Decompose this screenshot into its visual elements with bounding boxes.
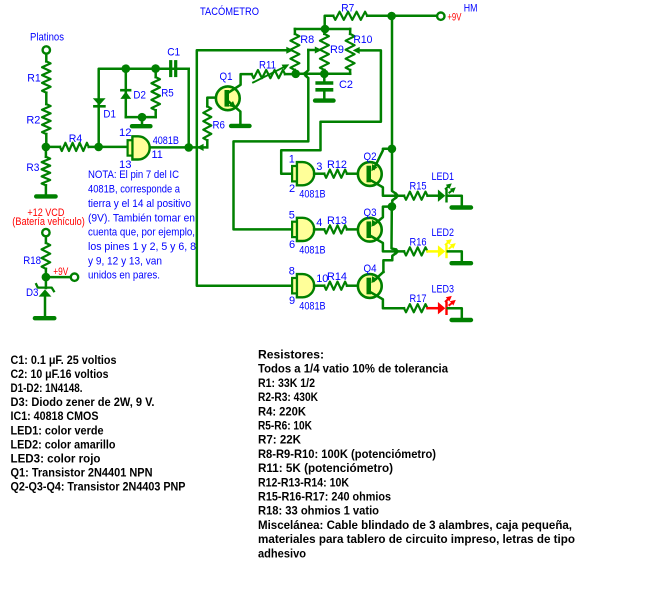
ground below LED3 (452, 318, 471, 322)
svg-text:8: 8 (289, 266, 295, 278)
svg-text:3: 3 (316, 161, 322, 173)
svg-text:R11: 5K (potenciómetro): R11: 5K (potenciómetro) (258, 461, 393, 475)
node junction R18-D3-9V (42, 273, 51, 282)
node junction Q2 emitter rail (388, 145, 397, 154)
resistor R7 (325, 16, 334, 29)
wire LED cathode to ground (448, 308, 462, 318)
gate 4081B pins 8 9 10 (297, 274, 314, 297)
resistor R15 (404, 192, 428, 200)
svg-text:Miscelánea: Cable blindado de: Miscelánea: Cable blindado de 3 alambres… (258, 518, 572, 532)
R8 wiper wire from U1 output (197, 50, 287, 147)
svg-text:R16: R16 (410, 236, 427, 248)
svg-text:C2: C2 (339, 79, 353, 91)
wire crossing diamond (393, 192, 400, 199)
svg-text:HM: HM (464, 3, 478, 15)
wire to gate input (99, 146, 128, 149)
wire top rail R8 R9 R10 (295, 28, 350, 31)
svg-text:4081B: 4081B (153, 135, 179, 147)
svg-text:4081B, corresponde a: 4081B, corresponde a (88, 184, 181, 196)
terminal +9V output (71, 274, 78, 281)
svg-text:D2: D2 (133, 90, 146, 102)
resistor R18 (42, 243, 51, 269)
svg-text:R15-R16-R17: 240 ohmios: R15-R16-R17: 240 ohmios (258, 490, 391, 504)
Q2 emitter wire to rail (374, 149, 392, 169)
svg-text:R17: R17 (410, 293, 427, 305)
R9 wiper wire down to gate2 input (234, 50, 309, 229)
svg-text:1: 1 (289, 154, 295, 166)
Q3 PNP arrow (371, 220, 377, 227)
svg-text:adhesivo: adhesivo (258, 546, 306, 560)
R9 wiper arrow (308, 49, 316, 52)
svg-text:R8-R9-R10: 100K (potenciómetro: R8-R9-R10: 100K (potenciómetro) (258, 447, 436, 461)
svg-text:R1: R1 (27, 73, 41, 85)
arrow on bottom rail (301, 70, 308, 77)
LED LED2 (438, 245, 445, 257)
svg-text:D3: Diodo zener de 2W, 9 V.: D3: Diodo zener de 2W, 9 V. (11, 395, 155, 409)
svg-text:R12-R13-R14: 10K: R12-R13-R14: 10K (258, 475, 349, 489)
svg-text:+9V: +9V (447, 11, 461, 23)
svg-text:R9: R9 (330, 44, 344, 56)
ground below R3 (36, 194, 55, 198)
svg-text:R11: R11 (259, 60, 276, 72)
ground below C2 (315, 98, 333, 102)
svg-text:R4: R4 (69, 133, 83, 145)
R10 wiper wire to gate1 input (281, 50, 381, 173)
node junction D2 top (122, 64, 131, 73)
svg-text:los pines 1 y 2, 5 y 6, 8: los pines 1 y 2, 5 y 6, 8 (88, 241, 196, 253)
svg-text:Platinos: Platinos (30, 32, 64, 44)
wire U1 output down to gate3 input (197, 147, 292, 285)
Q2 PNP arrow (371, 164, 377, 171)
svg-text:NOTA: El pin 7 del IC: NOTA: El pin 7 del IC (88, 169, 179, 181)
wire (44, 297, 47, 316)
potentiometer R10 (349, 29, 352, 34)
svg-text:4081B: 4081B (299, 189, 325, 201)
resistor R16 (404, 247, 428, 255)
svg-text:Q3: Q3 (364, 207, 377, 219)
svg-text:Todos a 1/4 vatio 10% de toler: Todos a 1/4 vatio 10% de tolerancia (258, 362, 448, 376)
svg-text:R1: 33K 1/2: R1: 33K 1/2 (258, 376, 315, 390)
Q4 collector wire (371, 292, 404, 308)
diode D1 (93, 98, 106, 105)
svg-text:(Batería vehículo): (Batería vehículo) (12, 216, 85, 228)
potentiometer R9 (323, 29, 326, 34)
node junction Q3 emitter rail (388, 202, 397, 211)
svg-text:6: 6 (289, 239, 295, 251)
wire to LED3 (428, 307, 438, 310)
wire to LED1 (428, 194, 438, 197)
svg-text:D1-D2: 1N4148.: D1-D2: 1N4148. (11, 381, 83, 395)
svg-text:R6: R6 (213, 120, 226, 132)
svg-text:4081B: 4081B (299, 301, 325, 313)
node junction U1 out / C1 / R8 wiper (184, 143, 193, 152)
svg-text:(9V). También tomar en: (9V). También tomar en (88, 212, 195, 224)
svg-text:4: 4 (316, 217, 322, 229)
svg-text:LED2: LED2 (432, 227, 455, 239)
gate 4081B pins 5 6 4 (297, 218, 314, 241)
svg-text:R4: 220K: R4: 220K (258, 404, 306, 418)
transistor Q4 PNP (358, 274, 382, 298)
wire C1 right down to gate output node (187, 69, 190, 148)
svg-text:2: 2 (289, 183, 295, 195)
svg-text:LED1: LED1 (432, 171, 455, 183)
gate 4081B pins 1 2 3 (297, 162, 314, 185)
svg-text:R13: R13 (327, 215, 347, 227)
node junction R2-R3-R4 (42, 143, 51, 152)
Q1 collector wire (229, 74, 252, 92)
svg-text:cuenta que, por ejemplo,: cuenta que, por ejemplo, (88, 227, 195, 239)
svg-text:R7: R7 (341, 2, 354, 14)
wire to 9V terminal (46, 276, 71, 279)
svg-text:LED3: LED3 (432, 284, 455, 296)
terminal +9V HM (437, 13, 444, 20)
svg-text:Q1: Transistor 2N4401 NPN: Q1: Transistor 2N4401 NPN (11, 465, 153, 479)
resistor R14 (314, 284, 324, 287)
svg-text:R12: R12 (327, 159, 347, 171)
LED LED3 (438, 302, 445, 314)
svg-text:LED2: color amarillo: LED2: color amarillo (11, 437, 116, 451)
node junction ground D2-R5 (138, 113, 147, 122)
resistor R17 (404, 304, 428, 312)
wire LED cathode to ground (448, 196, 462, 206)
wire (45, 134, 48, 147)
svg-text:R2: R2 (26, 115, 40, 127)
transistor Q3 PNP (358, 218, 382, 242)
node junction R7-R9 top (321, 25, 330, 34)
node junction R7 right / rail (387, 12, 396, 21)
svg-text:5: 5 (289, 209, 295, 221)
svg-text:LED1: color verde: LED1: color verde (11, 423, 104, 437)
Q3 emitter wire to rail (374, 207, 392, 225)
Q3 collector wire (371, 236, 404, 251)
LED LED1 (438, 190, 445, 202)
resistor R6 (206, 140, 209, 147)
transistor Q1 (216, 86, 240, 110)
svg-text:IC1: 40818 CMOS: IC1: 40818 CMOS (11, 409, 99, 423)
svg-text:R18: R18 (23, 255, 41, 267)
op-amp gate U1 4081B pins 12 13 11 (132, 136, 149, 159)
resistor R5 (154, 69, 157, 78)
wire (45, 269, 48, 277)
capacitor C2 (323, 74, 326, 81)
wire gate U1 output (150, 146, 207, 149)
ground below D3 (35, 316, 54, 320)
svg-text:D3: D3 (26, 287, 39, 299)
wire (45, 236, 48, 243)
svg-text:R8: R8 (300, 34, 314, 46)
svg-text:Q1: Q1 (220, 71, 233, 83)
wiper arrow into node (197, 144, 204, 151)
resistor R1 (42, 61, 51, 92)
wire to LED2 (428, 250, 438, 253)
ground below LED2 (452, 261, 471, 265)
terminal Platinos (43, 46, 50, 53)
ground below LED1 (452, 205, 471, 209)
svg-text:Q2-Q3-Q4: Transistor 2N4403 PN: Q2-Q3-Q4: Transistor 2N4403 PNP (11, 479, 186, 493)
wire (45, 93, 48, 104)
node junction D1-R4-gate input (94, 143, 103, 152)
svg-text:C1: C1 (167, 47, 180, 59)
wire LED cathode to ground (448, 251, 462, 261)
transistor Q2 PNP (358, 162, 382, 186)
wire (45, 185, 48, 194)
svg-text:C1: 0.1 μF. 25 voltios: C1: 0.1 μF. 25 voltios (11, 353, 117, 367)
resistor R2 (42, 104, 51, 134)
svg-text:D1: D1 (103, 109, 116, 121)
svg-text:R18: 33 ohmios 1 vatio: R18: 33 ohmios 1 vatio (258, 504, 379, 518)
svg-text:Resistores:: Resistores: (258, 348, 324, 362)
svg-text:C2: 10 μF.16 voltios: C2: 10 μF.16 voltios (11, 367, 109, 381)
wire bottom rail R8 R9 R10 (296, 73, 351, 76)
Q1 emitter wire with NPN arrow (229, 102, 241, 124)
ground below Q1 (231, 124, 249, 128)
svg-text:9: 9 (289, 295, 295, 307)
Q4 emitter wire to rail (374, 272, 384, 281)
ground below D2 (141, 117, 144, 123)
svg-text:y 9, 12 y 13, van: y 9, 12 y 13, van (88, 255, 162, 267)
wire bottom D2-R5 (126, 116, 156, 119)
wire +9V rail down with jogs (392, 16, 396, 207)
terminal +12V battery (42, 229, 49, 236)
svg-text:R10: R10 (353, 34, 372, 46)
svg-text:4081B: 4081B (299, 244, 325, 256)
zener diode D3 (45, 277, 48, 288)
potentiometer R11 rheostat (252, 70, 285, 78)
resistor R13 (314, 228, 324, 231)
svg-text:R15: R15 (410, 181, 427, 193)
svg-text:materiales para tablero de cir: materiales para tablero de circuito impr… (258, 532, 575, 546)
svg-text:LED3: color rojo: LED3: color rojo (11, 451, 101, 465)
node junction R5-C1 top (151, 64, 160, 73)
diode D2 (125, 69, 128, 117)
node junction R8 bottom (291, 70, 300, 79)
resistor R3 (45, 147, 48, 157)
node junction R9 bottom C2 (320, 70, 329, 79)
Q2 collector wire (371, 180, 404, 195)
svg-text:11: 11 (152, 149, 163, 161)
wire (45, 54, 48, 62)
svg-text:R7: 22K: R7: 22K (258, 433, 301, 447)
svg-text:12: 12 (119, 127, 132, 139)
svg-text:unidos en pares.: unidos en pares. (88, 270, 160, 282)
svg-text:TACÓMETRO: TACÓMETRO (200, 5, 259, 18)
wire crossing diamond (393, 248, 400, 255)
svg-text:R5: R5 (161, 88, 174, 100)
resistor R12 (314, 172, 324, 175)
svg-text:tierra y el 14 al positivo: tierra y el 14 al positivo (88, 198, 191, 210)
svg-text:Q2: Q2 (364, 151, 377, 163)
svg-text:R14: R14 (327, 271, 347, 283)
svg-text:R3: R3 (26, 162, 39, 174)
resistor R4 (46, 146, 60, 149)
Q4 PNP arrow (371, 276, 377, 283)
potentiometer R8 (294, 29, 297, 34)
svg-text:R2-R3: 430K: R2-R3: 430K (258, 390, 318, 404)
wire top rail of D1 D2 R5 C1 (99, 69, 189, 147)
svg-text:R5-R6: 10K: R5-R6: 10K (258, 419, 312, 433)
svg-text:Q4: Q4 (364, 263, 377, 275)
